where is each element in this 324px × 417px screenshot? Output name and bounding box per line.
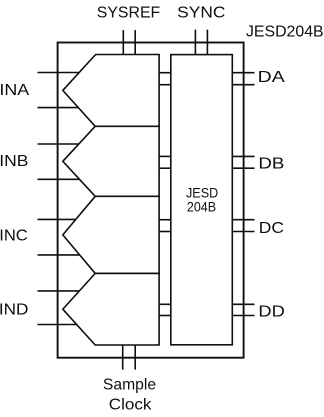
svg-text:DB: DB	[258, 156, 284, 173]
ADC C	[63, 196, 159, 273]
svg-text:Clock: Clock	[109, 397, 153, 414]
svg-text:SYSREF: SYSREF	[97, 5, 161, 22]
wire IND-	[38, 324, 101, 326]
svg-text:INB: INB	[0, 153, 28, 170]
ADC A	[63, 55, 159, 127]
svg-text:IND: IND	[0, 301, 28, 318]
wire SYNC pair	[195, 30, 207, 60]
svg-text:DC: DC	[259, 220, 284, 237]
wire ADC A to JESD bus	[159, 73, 171, 85]
wire SYSREF pair	[123, 30, 135, 60]
wire sample clock pair	[123, 345, 136, 370]
svg-text:SYNC: SYNC	[177, 5, 225, 22]
wire DB output pair	[232, 156, 254, 168]
svg-text:Sample: Sample	[103, 376, 156, 393]
wire IND+	[38, 290, 101, 292]
wire INA-	[38, 107, 101, 109]
svg-text:DD: DD	[258, 304, 284, 321]
ADC B	[63, 126, 159, 196]
wire ADC B to JESD bus	[159, 156, 171, 168]
svg-text:INC: INC	[0, 228, 28, 245]
ADC D	[63, 273, 159, 345]
chip outline	[58, 43, 244, 358]
svg-text:INA: INA	[0, 82, 30, 99]
wire INB-	[38, 178, 101, 180]
wire DD output pair	[232, 304, 254, 315]
wire DA output pair	[232, 73, 254, 85]
svg-text:JESD204B: JESD204B	[246, 23, 324, 40]
JESD204B block	[171, 55, 233, 345]
svg-text:204B: 204B	[187, 199, 216, 215]
wire ADC D to JESD bus	[159, 304, 171, 315]
svg-text:DA: DA	[258, 69, 285, 86]
wire DC output pair	[232, 220, 254, 232]
wire INC+	[38, 218, 101, 220]
wire ADC C to JESD bus	[159, 220, 171, 232]
wire INC-	[38, 254, 101, 256]
wire INB+	[38, 143, 101, 145]
wire INA+	[38, 72, 101, 74]
